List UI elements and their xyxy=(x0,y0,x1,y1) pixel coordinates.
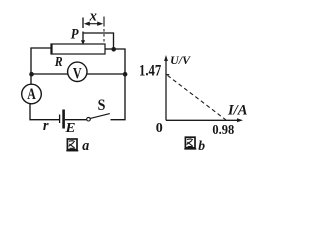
svg-text:E: E xyxy=(64,121,75,136)
svg-text:P: P xyxy=(71,27,79,43)
svg-text:1.47: 1.47 xyxy=(139,63,161,80)
svg-text:U/V: U/V xyxy=(170,55,191,67)
svg-text:0: 0 xyxy=(156,121,163,136)
svg-text:I/A: I/A xyxy=(227,103,247,119)
svg-text:r: r xyxy=(43,118,49,134)
svg-text:R: R xyxy=(54,54,63,69)
svg-text:b: b xyxy=(198,139,205,154)
svg-text:a: a xyxy=(82,138,89,154)
svg-text:A: A xyxy=(27,86,36,103)
svg-text:S: S xyxy=(98,97,106,114)
svg-text:V: V xyxy=(73,65,82,82)
svg-text:0.98: 0.98 xyxy=(212,123,234,138)
svg-text:x: x xyxy=(89,9,97,25)
